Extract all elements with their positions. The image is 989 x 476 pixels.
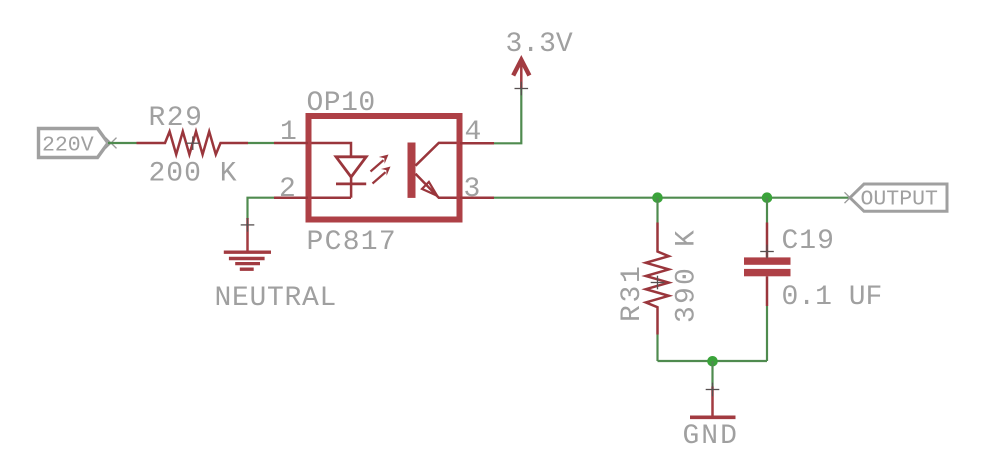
pin 4 stub — [460, 142, 494, 145]
svg-text:C19: C19 — [782, 226, 835, 257]
svg-text:OP10: OP10 — [307, 88, 376, 119]
phototransistor emitter — [416, 174, 457, 198]
wire pin2 net to NEUTRAL — [248, 198, 275, 219]
flag 220V — [39, 129, 109, 158]
wire R31 bottom — [656, 335, 658, 362]
junction at C19 top — [762, 192, 773, 203]
pin 2 stub — [274, 196, 308, 199]
junction at GND stub — [707, 356, 718, 367]
resistor R29 — [137, 132, 249, 155]
svg-text:3.3V: 3.3V — [506, 29, 573, 60]
svg-text:1: 1 — [280, 117, 297, 148]
pin marker cross at OUTPUT flag tip — [845, 192, 856, 203]
pin 3 stub — [460, 196, 494, 199]
resistor R31 — [646, 223, 669, 335]
origin cross R31 — [651, 276, 665, 290]
svg-text:2: 2 — [279, 174, 296, 205]
capacitor C19 — [744, 223, 791, 307]
svg-text:R31: R31 — [617, 263, 648, 322]
origin cross GND — [706, 383, 720, 397]
svg-text:GND: GND — [683, 421, 739, 452]
svg-text:0.1 UF: 0.1 UF — [782, 282, 883, 313]
junction at R31 top — [652, 192, 663, 203]
ground GND — [690, 387, 736, 418]
svg-text:OUTPUT: OUTPUT — [861, 188, 939, 212]
svg-text:390 K: 390 K — [672, 228, 703, 323]
wire pin3 net to OUTPUT — [494, 197, 850, 199]
svg-text:3: 3 — [464, 174, 481, 205]
svg-text:PC817: PC817 — [307, 227, 398, 258]
origin cross NEUTRAL — [241, 218, 255, 232]
phototransistor collector — [416, 143, 457, 166]
svg-text:NEUTRAL: NEUTRAL — [215, 283, 338, 314]
wire pin4 to 3.3V supply — [494, 89, 521, 144]
supply 3.3V arrow — [513, 60, 529, 89]
LED inside optocoupler — [312, 143, 367, 198]
wire junction to GND — [711, 361, 713, 387]
emitter arrowhead — [422, 182, 437, 196]
origin cross R29 — [186, 136, 200, 150]
wire junction to C19 — [766, 198, 768, 223]
wire junction to R31 — [656, 198, 658, 223]
svg-text:R29: R29 — [149, 103, 204, 134]
pin marker cross at 220V flag tip — [106, 138, 117, 149]
svg-text:220V: 220V — [42, 134, 94, 158]
pin 1 stub — [274, 142, 308, 145]
svg-text:200 K: 200 K — [149, 159, 238, 190]
origin cross C19 — [760, 245, 774, 259]
wire C19 bottom — [766, 306, 768, 361]
origin cross 3.3V — [515, 82, 529, 96]
light arrow A — [371, 155, 389, 172]
phototransistor Q base bar — [408, 143, 416, 198]
wire R29 to opto pin 1 — [248, 142, 274, 144]
svg-text:4: 4 — [465, 117, 482, 148]
light arrow B — [373, 167, 391, 184]
flag OUTPUT — [850, 184, 947, 212]
optocoupler U box OP10 — [309, 116, 460, 220]
wire bottom rail R31 to C19 — [658, 360, 768, 362]
wire 220V flag to R29 — [108, 142, 137, 144]
ground NEUTRAL — [224, 218, 271, 269]
